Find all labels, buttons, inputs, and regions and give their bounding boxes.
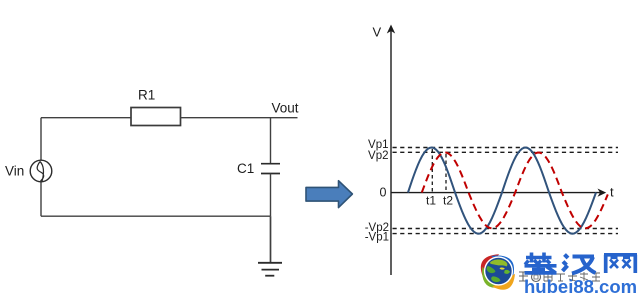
- watermark logo: [481, 254, 515, 290]
- marker t1: [426, 149, 436, 208]
- gridline -Vp2: [393, 228, 619, 230]
- label -Vp1: [365, 232, 389, 244]
- block arrow: [306, 181, 352, 208]
- waveform red output: [422, 153, 608, 229]
- waveform blue input: [408, 148, 596, 234]
- ground: [258, 263, 282, 276]
- wire top-right horizontal: [181, 117, 298, 119]
- marker t2: [443, 154, 453, 208]
- axis V: [387, 25, 395, 276]
- svg-text:C1: C1: [237, 161, 254, 176]
- resistor R1: [131, 88, 181, 126]
- node Vout: [272, 101, 299, 116]
- svg-text:t1: t1: [426, 194, 436, 208]
- axis t: [391, 189, 606, 197]
- wire right vertical lower: [270, 174, 272, 217]
- svg-text:V: V: [373, 25, 382, 40]
- label Vp1: [368, 139, 388, 151]
- label V: [373, 25, 382, 40]
- wire ground stem: [270, 216, 272, 263]
- svg-text:t2: t2: [443, 194, 453, 208]
- label Vp2: [368, 150, 388, 162]
- source Vin: [5, 160, 52, 182]
- wire bottom horizontal: [41, 215, 271, 217]
- svg-text:Vin: Vin: [5, 164, 24, 179]
- gridline Vp2: [393, 151, 619, 153]
- label 0: [380, 186, 387, 200]
- watermark text chu-han-wang: [525, 253, 638, 274]
- svg-text:hubei88.com: hubei88.com: [524, 276, 637, 296]
- watermark text hubei88.com: [524, 276, 637, 296]
- gridline Vp1: [393, 147, 619, 149]
- svg-text:Vout: Vout: [272, 101, 299, 116]
- label t: [610, 185, 614, 200]
- svg-text:-Vp1: -Vp1: [365, 232, 389, 244]
- gridline -Vp1: [393, 233, 619, 235]
- wire left vertical: [40, 118, 42, 217]
- svg-text:0: 0: [380, 186, 387, 200]
- watermark gray text: [519, 272, 600, 282]
- svg-text:t: t: [610, 185, 614, 200]
- wire top-left horizontal: [41, 117, 132, 119]
- svg-text:Vp2: Vp2: [368, 150, 388, 162]
- capacitor C1: [237, 161, 280, 176]
- wire right vertical upper: [270, 118, 272, 164]
- label -Vp2: [365, 222, 389, 234]
- svg-text:R1: R1: [138, 88, 155, 103]
